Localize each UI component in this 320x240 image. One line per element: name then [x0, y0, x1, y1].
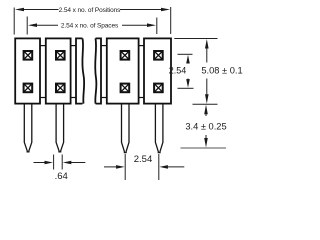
svg-text:2.54: 2.54	[134, 154, 153, 165]
svg-text:.64: .64	[55, 171, 68, 182]
svg-text:2.54: 2.54	[169, 65, 187, 75]
svg-text:2.54 x no. of Spaces: 2.54 x no. of Spaces	[61, 23, 119, 30]
svg-text:2.54 x no. of Positions: 2.54 x no. of Positions	[59, 7, 122, 14]
svg-text:3.4 ± 0.25: 3.4 ± 0.25	[185, 121, 226, 131]
svg-text:5.08 ± 0.1: 5.08 ± 0.1	[201, 65, 242, 75]
